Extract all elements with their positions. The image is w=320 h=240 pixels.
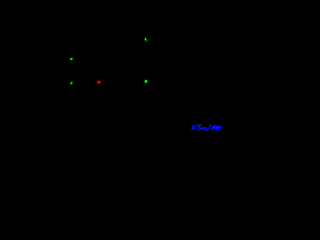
green LED 2 (lower left group)	[70, 82, 73, 86]
M	[212, 126, 216, 130]
m squiggles	[201, 128, 206, 129]
green LED 3 (upper right group)	[145, 38, 148, 42]
y descender	[205, 128, 208, 131]
tail mark	[219, 127, 222, 129]
red LED (center)	[97, 80, 101, 84]
blue signature watermark "X Jones / MW"	[192, 125, 221, 130]
J with bar	[197, 124, 201, 126]
green LED 4 (lower right group)	[144, 80, 148, 84]
X	[192, 126, 195, 129]
W	[216, 126, 219, 129]
slash	[208, 125, 211, 130]
green LED 1 (upper left group)	[70, 58, 73, 61]
